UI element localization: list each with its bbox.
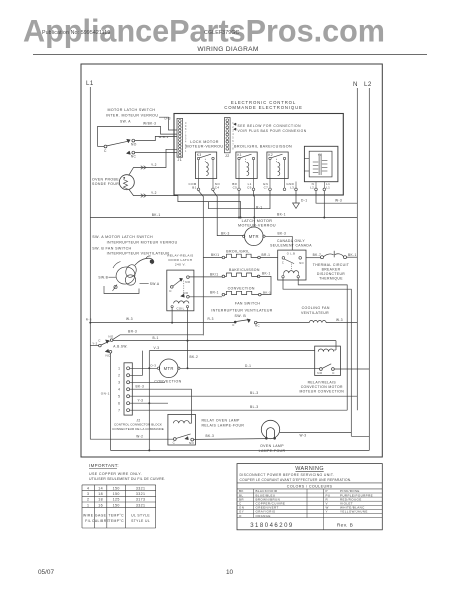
svg-text:C: C <box>104 149 107 153</box>
switch SW-A arm to NO <box>107 141 129 146</box>
svg-text:SW. A MOTOR LATCH SWITCH: SW. A MOTOR LATCH SWITCH <box>92 235 153 239</box>
wire NO C4 to latch motor <box>213 191 244 236</box>
oven probe body <box>119 175 134 190</box>
svg-text:DISJONCTEUR: DISJONCTEUR <box>317 272 345 276</box>
wire door coil left to R-3 bus <box>171 308 173 323</box>
svg-text:14: 14 <box>98 486 103 490</box>
svg-text:OVEN PROBE: OVEN PROBE <box>92 177 119 181</box>
svg-text:SW.A: SW.A <box>150 282 160 286</box>
svg-text:MOTOR LATCH SWITCH: MOTOR LATCH SWITCH <box>108 108 156 112</box>
wire pin3 stub <box>130 381 165 383</box>
svg-text:BK-1: BK-1 <box>152 213 161 217</box>
svg-text:Publication No: 5995421119: Publication No: 5995421119 <box>42 30 110 36</box>
svg-text:TEMP°C: TEMP°C <box>108 519 124 523</box>
wire L1 vertical <box>89 87 91 439</box>
svg-text:FIL: FIL <box>85 519 91 523</box>
svg-text:Y-2: Y-2 <box>151 191 157 195</box>
wire BR-3 from NO <box>113 335 203 340</box>
svg-text:3: 3 <box>87 492 89 496</box>
svg-text:SW. A: SW. A <box>120 120 131 124</box>
svg-text:4: 4 <box>87 486 89 490</box>
svg-text:3: 3 <box>232 129 234 132</box>
svg-text:NO: NO <box>185 280 191 284</box>
svg-text:BR-3: BR-3 <box>128 329 137 333</box>
wire canada box to breaker <box>306 257 321 259</box>
svg-text:CANADA ONLY: CANADA ONLY <box>277 239 305 243</box>
svg-text:INTERRUPTEUR VENTILATEUR: INTERRUPTEUR VENTILATEUR <box>107 252 170 256</box>
svg-text:SW.B: SW.B <box>98 275 108 279</box>
part number row <box>323 518 325 530</box>
wire bake left from door relay <box>189 276 222 278</box>
svg-text:BK-7: BK-7 <box>313 253 322 257</box>
svg-text:16: 16 <box>98 503 103 507</box>
svg-text:C: C <box>169 289 172 293</box>
wire GN-1 switch NC down <box>110 353 112 450</box>
svg-text:CALIBRE: CALIBRE <box>92 519 110 523</box>
svg-text:1: 1 <box>185 150 187 153</box>
svg-text:BL-3: BL-3 <box>250 405 258 409</box>
switch SW-A common <box>104 145 107 148</box>
svg-text:O L.B: O L.B <box>287 252 296 256</box>
svg-text:K2: K2 <box>268 153 273 157</box>
relay K2 <box>267 152 288 179</box>
svg-text:BL-3: BL-3 <box>250 391 258 395</box>
wire vertical trunk left <box>148 351 150 451</box>
svg-text:BK-3: BK-3 <box>206 434 215 438</box>
svg-text:BK-1: BK-1 <box>277 213 286 217</box>
control connector block J2 <box>124 363 132 415</box>
connector J2 <box>225 118 231 153</box>
svg-text:4: 4 <box>118 388 120 392</box>
svg-text:GN-1: GN-1 <box>101 392 110 396</box>
svg-text:INTERRUPTEUR VENTILATEUR: INTERRUPTEUR VENTILATEUR <box>211 308 272 312</box>
svg-text:COUPER LE COURANT AVANT D'EFFE: COUPER LE COURANT AVANT D'EFFECTUER UNE … <box>240 478 352 482</box>
wire COM contact down <box>199 191 204 336</box>
svg-text:C: C <box>232 323 234 327</box>
svg-text:N: N <box>353 81 358 88</box>
wire Y-2 probe bottom <box>129 189 178 196</box>
wire gauge table <box>82 484 156 486</box>
svg-text:BR-1: BR-1 <box>210 291 219 295</box>
svg-text:UTILISER SEULEMENT DU FIL DE C: UTILISER SEULEMENT DU FIL DE CUIVRE. <box>89 477 165 481</box>
svg-text:240 V.: 240 V. <box>175 263 186 267</box>
svg-text:3: 3 <box>118 381 120 385</box>
wire bake right <box>260 276 271 294</box>
svg-text:A.B.SW.: A.B.SW. <box>113 344 128 348</box>
svg-text:Y: Y <box>326 510 328 514</box>
svg-text:C7: C7 <box>264 186 269 190</box>
svg-text:Y-3: Y-3 <box>138 398 144 402</box>
svg-text:NO: NO <box>299 261 304 265</box>
wire bus to cooling fan <box>257 322 309 324</box>
transformer T1 <box>304 146 338 181</box>
svg-text:L1: L1 <box>326 186 330 190</box>
svg-text:7: 7 <box>118 408 120 412</box>
svg-text:COOLING FAN: COOLING FAN <box>302 306 330 310</box>
svg-text:VENTILATEUR: VENTILATEUR <box>301 311 329 315</box>
motor latch mechanism drawing <box>104 256 154 294</box>
svg-text:MOTEUR-VERROU: MOTEUR-VERROU <box>186 145 224 149</box>
svg-text:MOTEUR-VERROU: MOTEUR-VERROU <box>238 224 276 228</box>
svg-text:05/07: 05/07 <box>38 569 54 576</box>
switch A.B.SW arm <box>101 341 110 345</box>
svg-text:COLORS / COULEURS: COLORS / COULEURS <box>287 485 333 489</box>
wire door coil right / BK-2 <box>187 308 189 369</box>
svg-text:UL STYLE: UL STYLE <box>131 514 150 518</box>
svg-text:LATCH MOTOR: LATCH MOTOR <box>242 219 273 223</box>
canada relay coil <box>284 271 299 273</box>
svg-text:B-1: B-1 <box>153 336 159 340</box>
wire canada coil right down right <box>298 278 347 410</box>
svg-text:Y-2: Y-2 <box>151 163 157 167</box>
diagram border frame <box>81 64 382 457</box>
wire V-3 to convection relay <box>149 350 314 352</box>
svg-text:BK-1: BK-1 <box>262 272 271 276</box>
svg-text:5: 5 <box>118 395 120 399</box>
svg-text:W/B-2: W/B-2 <box>159 135 169 139</box>
svg-text:C5: C5 <box>233 186 238 190</box>
electronic control board box <box>174 114 343 196</box>
svg-text:ORANGE: ORANGE <box>256 514 271 518</box>
wire BK-3 latch motor right <box>265 235 292 237</box>
svg-text:CONVECTION: CONVECTION <box>154 380 181 384</box>
wire Y-2 probe top <box>129 149 177 175</box>
fan switch SW-B <box>234 321 237 324</box>
svg-text:318046209: 318046209 <box>250 523 294 529</box>
svg-text:BK-3: BK-3 <box>136 385 145 389</box>
wire convection motor to relay NO <box>180 367 320 369</box>
svg-text:BREAKER: BREAKER <box>322 268 341 272</box>
svg-text:DISCONNECT POWER BEFORE SERVIC: DISCONNECT POWER BEFORE SERVICING UNIT. <box>240 473 335 477</box>
svg-text:BK-1: BK-1 <box>263 291 271 295</box>
svg-text:2: 2 <box>118 374 120 378</box>
svg-text:Rev. B: Rev. B <box>337 523 353 529</box>
svg-text:R-3: R-3 <box>86 318 92 322</box>
svg-text:2: 2 <box>87 498 89 502</box>
svg-text:GAGE: GAGE <box>95 514 107 518</box>
wire W-2 from relay C to switch common <box>90 438 173 440</box>
title underline rule <box>33 54 427 56</box>
svg-text:TEMP°C: TEMP°C <box>108 514 124 518</box>
svg-text:WIRING DIAGRAM: WIRING DIAGRAM <box>197 46 258 53</box>
svg-text:RELAY-RELAIS: RELAY-RELAIS <box>167 253 193 257</box>
wire R-1 from L1 pin to latch motor <box>253 191 256 227</box>
svg-text:RELAIS LAMPE-FOUR: RELAIS LAMPE-FOUR <box>202 423 245 427</box>
wire pin4 BK-3 to lamp relay coil <box>130 389 192 423</box>
svg-text:C: C <box>98 339 101 343</box>
wire from T1 pin down to BK-1 bus <box>323 191 325 218</box>
wire C5 down to bus <box>238 191 240 218</box>
svg-text:BK/1: BK/1 <box>210 272 218 276</box>
oven lamp <box>261 420 279 438</box>
svg-text:CONVECTION MOTOR: CONVECTION MOTOR <box>301 385 343 389</box>
svg-text:MTR: MTR <box>249 234 259 239</box>
note see below for connection <box>234 123 236 125</box>
wire pin6 Y-3 <box>130 402 168 404</box>
wire BK-1 bus horizontal <box>90 217 357 219</box>
svg-text:3321: 3321 <box>136 486 146 490</box>
relay K3 <box>195 152 216 179</box>
svg-text:2: 2 <box>232 126 234 129</box>
wire convection left from door relay <box>189 296 222 298</box>
svg-text:R-1: R-1 <box>256 206 262 210</box>
wire N vertical <box>356 88 358 410</box>
svg-text:NC: NC <box>255 324 260 328</box>
wire K2 contact link <box>209 191 270 209</box>
svg-text:3321: 3321 <box>136 503 146 507</box>
svg-text:L1: L1 <box>86 80 94 87</box>
thermal circuit breaker <box>321 256 324 259</box>
wire broil right to canada relay <box>260 257 277 259</box>
svg-text:K3: K3 <box>197 153 202 157</box>
svg-text:150: 150 <box>113 486 120 490</box>
svg-text:INTERRUPTEUR MOTEUR VERROU: INTERRUPTEUR MOTEUR VERROU <box>107 240 178 244</box>
svg-text:Y-2: Y-2 <box>92 341 97 345</box>
svg-text:B1: B1 <box>192 186 196 190</box>
svg-text:V-3: V-3 <box>154 346 160 350</box>
svg-text:SEE BELOW FOR CONNECTION: SEE BELOW FOR CONNECTION <box>238 124 302 128</box>
svg-text:L2: L2 <box>364 81 372 88</box>
svg-text:SW. B FAN SWITCH: SW. B FAN SWITCH <box>92 246 131 250</box>
wire pin2 up to V-3 <box>130 351 143 376</box>
wire pin5 BL-3 <box>130 395 358 397</box>
relay convection motor box <box>315 346 341 375</box>
svg-text:R-3: R-3 <box>208 317 214 321</box>
wire L2 vertical <box>368 88 370 450</box>
svg-text:D-1: D-1 <box>245 364 251 368</box>
svg-text:125: 125 <box>113 498 120 502</box>
svg-text:O: O <box>239 514 242 518</box>
svg-text:BK-3: BK-3 <box>221 232 230 236</box>
svg-text:BR-1: BR-1 <box>262 253 271 257</box>
svg-text:NO: NO <box>317 371 323 375</box>
svg-text:YELLOW/JAUNE: YELLOW/JAUNE <box>340 510 368 514</box>
svg-text:W-3: W-3 <box>300 433 307 437</box>
svg-text:1: 1 <box>232 122 234 125</box>
svg-text:5: 5 <box>232 137 234 140</box>
svg-text:C: C <box>282 261 284 265</box>
relay oven lamp box <box>168 414 196 445</box>
svg-text:VOIR PLUS BAS POUR CONNEXION: VOIR PLUS BAS POUR CONNEXION <box>238 129 307 133</box>
svg-text:SONDE FOUR: SONDE FOUR <box>92 182 119 186</box>
svg-text:L2: L2 <box>310 186 314 190</box>
connector J1 <box>177 118 183 157</box>
color code table <box>237 492 382 494</box>
svg-text:BK/1: BK/1 <box>211 253 219 257</box>
svg-text:NO: NO <box>189 441 194 445</box>
svg-text:LOCK MOTOR: LOCK MOTOR <box>190 140 219 144</box>
wire W-3 oven lamp to right <box>280 432 352 434</box>
svg-text:COMMANDE ELECTRONIQUE: COMMANDE ELECTRONIQUE <box>224 105 303 110</box>
ground symbol D-1 <box>295 191 297 203</box>
svg-text:3173: 3173 <box>136 498 146 502</box>
convection relay contacts <box>320 368 323 371</box>
svg-text:FAN SWITCH: FAN SWITCH <box>235 301 260 305</box>
svg-text:COIL: COIL <box>176 306 184 310</box>
svg-text:6: 6 <box>232 140 234 143</box>
switch A.B.SW NC <box>105 349 109 352</box>
svg-text:THERMAL CIRCUIT: THERMAL CIRCUIT <box>313 263 349 267</box>
svg-text:RELAY OVEN LAMP: RELAY OVEN LAMP <box>202 419 241 423</box>
svg-text:NC: NC <box>131 155 137 159</box>
svg-text:INTER. MOTEUR VERROU: INTER. MOTEUR VERROU <box>106 113 158 117</box>
svg-text:DOOR LATCH: DOOR LATCH <box>168 258 192 262</box>
svg-text:CGLEF379GC: CGLEF379GC <box>204 30 240 36</box>
svg-text:10: 10 <box>226 569 234 576</box>
svg-text:18: 18 <box>98 492 103 496</box>
wire B-1 horizontal <box>113 340 336 342</box>
svg-text:BK-2: BK-2 <box>190 355 199 359</box>
switch SW-A NC contact <box>126 151 130 154</box>
wire W-3 cooling fan to N <box>326 322 357 324</box>
svg-text:BROIL/GRIL BAKE/CUISSON: BROIL/GRIL BAKE/CUISSON <box>234 145 292 149</box>
svg-text:CONVECTION: CONVECTION <box>228 287 255 291</box>
svg-text:4: 4 <box>232 133 234 136</box>
svg-text:SEULEMENT CANADA: SEULEMENT CANADA <box>270 244 312 248</box>
wire bottom return to L2 <box>111 449 370 451</box>
wire BK-3 relay NO to oven lamp <box>194 438 267 441</box>
convection motor MTR <box>159 359 178 378</box>
svg-text:W-3: W-3 <box>126 317 133 321</box>
svg-text:K1: K1 <box>237 153 242 157</box>
svg-text:OVEN LAMP: OVEN LAMP <box>260 444 284 448</box>
svg-text:BAKE/CUISSON: BAKE/CUISSON <box>229 268 260 272</box>
wire right return to L2 <box>351 435 369 437</box>
svg-text:D-1: D-1 <box>301 198 307 202</box>
svg-text:150: 150 <box>113 503 120 507</box>
wire switch NC to J1 <box>135 152 177 154</box>
wire canada coil left down right <box>283 278 351 436</box>
svg-text:3321: 3321 <box>136 492 146 496</box>
wire lower horizontal J1 return <box>178 196 241 218</box>
wire relay C to L2 <box>334 368 369 370</box>
wire W/B-2 switch NO to J1 <box>135 136 177 140</box>
svg-text:THERMIQUE: THERMIQUE <box>319 277 343 281</box>
wire coil right up to B-1 line <box>334 349 336 351</box>
svg-text:6: 6 <box>118 402 120 406</box>
svg-text:SW. B: SW. B <box>234 314 246 318</box>
svg-text:1: 1 <box>87 503 89 507</box>
svg-text:CONTROL CONNECTOR BLOCK: CONTROL CONNECTOR BLOCK <box>114 422 162 426</box>
svg-text:150: 150 <box>113 492 120 496</box>
svg-text:CONNECTEUR DE LA COMMANDE: CONNECTEUR DE LA COMMANDE <box>112 427 164 431</box>
svg-text:L3: L3 <box>290 186 294 190</box>
wire pin7 BL-3 to N return <box>130 409 348 411</box>
svg-text:W/BK-3: W/BK-3 <box>143 122 156 126</box>
svg-text:BK-1: BK-1 <box>348 253 357 257</box>
door relay second contact <box>181 294 185 297</box>
svg-text:USE COPPER WIRE ONLY.: USE COPPER WIRE ONLY. <box>89 472 142 476</box>
svg-text:C4: C4 <box>215 186 220 190</box>
svg-text:W-3: W-3 <box>335 198 342 202</box>
svg-text:J2: J2 <box>225 154 230 158</box>
svg-text:C9: C9 <box>247 186 252 190</box>
svg-text:O-3: O-3 <box>150 364 156 368</box>
wire R-3 bus left segment <box>90 322 234 324</box>
wire D-3 from J1 <box>159 117 177 130</box>
svg-text:1: 1 <box>118 367 120 371</box>
wire W/BK-3 harness to J1 <box>98 126 177 146</box>
svg-text:WIRE: WIRE <box>83 514 94 518</box>
oven lamp relay contacts <box>173 438 176 441</box>
wire broil left <box>203 257 222 259</box>
svg-text:RELAY/RELAIS: RELAY/RELAIS <box>308 380 337 384</box>
svg-text:J1: J1 <box>178 158 183 162</box>
wire thermal breaker to N <box>347 256 358 258</box>
svg-text:LAMPE-FOUR: LAMPE-FOUR <box>259 449 286 453</box>
relay K1 <box>236 152 257 179</box>
svg-text:C: C <box>332 371 335 375</box>
warning box <box>237 464 382 530</box>
wire W-3 from transformer to N <box>316 191 357 204</box>
svg-text:NO: NO <box>131 142 137 146</box>
svg-text:BK-3: BK-3 <box>278 232 287 236</box>
wire pin1 to convection motor <box>130 367 158 369</box>
svg-text:MTR: MTR <box>164 366 174 371</box>
svg-text:C: C <box>173 441 175 445</box>
svg-text:IMPORTANT:: IMPORTANT: <box>89 463 119 468</box>
svg-text:W-3: W-3 <box>336 318 343 322</box>
svg-text:NO: NO <box>108 335 114 339</box>
svg-text:18: 18 <box>98 498 103 502</box>
door relay coil <box>174 301 189 304</box>
svg-text:BROIL/GRIL: BROIL/GRIL <box>226 249 249 253</box>
svg-text:STYLE UL: STYLE UL <box>131 519 150 523</box>
svg-text:W-2: W-2 <box>136 434 143 438</box>
svg-text:MOTEUR CONVECTION: MOTEUR CONVECTION <box>299 390 344 394</box>
